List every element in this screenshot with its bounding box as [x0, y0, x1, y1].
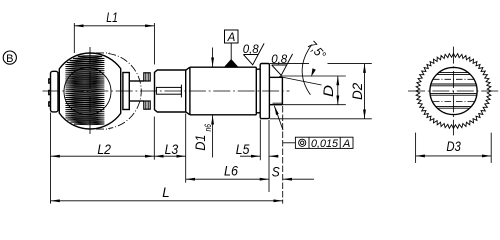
dimension L — [51, 200, 283, 202]
svg-text:A: A — [227, 32, 236, 44]
svg-text:L5: L5 — [236, 142, 250, 157]
cross pin slot — [156, 85, 181, 98]
dimension L6 — [186, 178, 269, 180]
dimension D3 — [416, 133, 492, 163]
leader arrow to pin — [274, 106, 283, 130]
grooved end cap — [49, 71, 58, 112]
hub circle seen through grip — [64, 68, 111, 115]
flange collar — [260, 64, 269, 119]
svg-text:D1: D1 — [192, 135, 208, 151]
end view inner circle — [430, 67, 477, 114]
end view dash-dot chords — [433, 79, 474, 101]
sleeve front section — [155, 70, 186, 112]
svg-text:D2: D2 — [349, 83, 365, 100]
dimension L3 — [154, 114, 185, 183]
svg-text:0,8: 0,8 — [271, 52, 287, 66]
angle 7,5 degrees — [279, 45, 322, 95]
dimension L5 — [240, 120, 278, 193]
wire ball vertical centerline — [89, 47, 91, 134]
svg-text:D3: D3 — [446, 139, 461, 154]
svg-text:L: L — [162, 185, 169, 200]
svg-text:L6: L6 — [224, 164, 238, 179]
sleeve main body — [186, 67, 257, 115]
wire pin tip extension dashed — [282, 106, 284, 204]
knurl ribs on ball — [65, 56, 104, 125]
wire neck edges — [129, 81, 144, 101]
dimension L1 — [74, 23, 154, 65]
undercut groove — [256, 69, 260, 113]
dimension D — [271, 76, 346, 105]
view label B — [3, 51, 16, 64]
end view groove chords — [430, 73, 476, 109]
svg-text:0,8: 0,8 — [243, 42, 259, 56]
wire end view centerlines — [408, 47, 499, 136]
tolerance frame 0,015 A — [295, 137, 353, 148]
datum flag A — [225, 30, 239, 43]
dimension D2 — [270, 64, 372, 119]
sleeve step face — [185, 70, 187, 112]
wire main centerline axis — [43, 90, 290, 92]
svg-text:A: A — [342, 138, 350, 150]
svg-text:B: B — [6, 53, 13, 65]
end view knurled ring — [416, 53, 491, 128]
svg-text:S: S — [272, 165, 280, 180]
indexing pin — [269, 77, 282, 104]
svg-text:L2: L2 — [97, 142, 111, 157]
svg-text:L3: L3 — [165, 142, 179, 157]
roughness 0,8 first — [243, 43, 264, 64]
svg-text:n6: n6 — [203, 124, 213, 131]
ball knob outline — [59, 53, 120, 129]
dimension S — [283, 178, 314, 180]
knurled collar — [144, 73, 150, 109]
dimension D1 n6 — [212, 48, 214, 158]
svg-text:D: D — [320, 85, 336, 97]
phantom arc of swivelled knob — [96, 53, 141, 129]
svg-text:L1: L1 — [106, 10, 118, 25]
svg-text:0,015: 0,015 — [311, 138, 339, 150]
dimension L2 — [51, 113, 155, 204]
washer at ball — [123, 73, 129, 110]
roughness 0,8 second — [272, 54, 293, 75]
leader to tolerance frame — [283, 142, 296, 144]
